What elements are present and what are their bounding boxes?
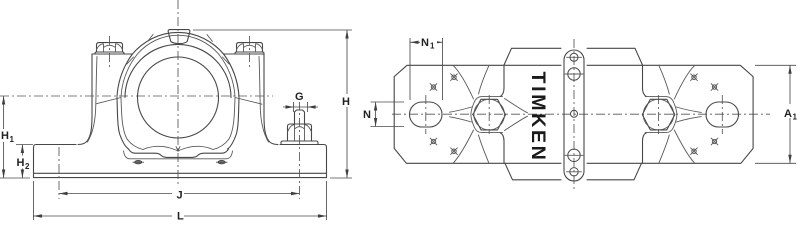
right nut funnel webs	[659, 65, 695, 163]
left nut funnel webs	[453, 65, 489, 163]
drill center marks right side	[691, 74, 718, 155]
joint strip with tabs	[564, 50, 584, 181]
right nut outboard webs	[676, 107, 701, 122]
dimension N	[363, 102, 404, 127]
dimension L	[34, 181, 327, 223]
casting tick marks on cap	[127, 35, 229, 65]
svg-text:1: 1	[10, 135, 15, 144]
J left bolt centerline	[58, 147, 60, 199]
G mounting bolt: washer	[281, 141, 318, 144]
svg-text:H: H	[342, 96, 350, 108]
dimension H2	[15, 145, 33, 179]
svg-text:A: A	[784, 108, 792, 120]
strip hole small top	[567, 53, 582, 61]
split line ledge left	[96, 98, 121, 104]
svg-text:1: 1	[793, 113, 798, 122]
lube hole mark left	[133, 161, 145, 164]
lube hole mark right	[216, 161, 228, 164]
cap band outline top	[504, 48, 643, 65]
left pillar outer wall	[78, 54, 92, 145]
dimension A1	[755, 65, 800, 163]
parallel arc side continuation	[121, 54, 235, 97]
cavity web moustache curves	[143, 146, 213, 151]
svg-text:G: G	[295, 91, 304, 103]
dimension H	[193, 30, 353, 178]
svg-text:TIMKEN: TIMKEN	[527, 72, 549, 163]
svg-text:N: N	[421, 37, 429, 49]
cap outer inner parallel arc	[137, 35, 218, 54]
left nut outboard webs	[450, 107, 472, 122]
svg-text:H: H	[17, 157, 25, 169]
right cap bolt	[235, 36, 264, 68]
dimension G	[283, 89, 318, 112]
cavity lower edge line	[124, 151, 233, 159]
dimension N1	[410, 36, 443, 101]
strip center hole	[571, 110, 578, 117]
right hex nut	[642, 95, 675, 134]
right pillar inner wall	[259, 57, 269, 143]
drill center marks left side	[430, 74, 457, 155]
cavity floor stepped line	[129, 149, 229, 157]
G bolt nut	[288, 124, 312, 141]
cap band outline bottom	[505, 163, 642, 180]
left nut inboard tail webs	[505, 99, 528, 131]
svg-text:H: H	[1, 130, 9, 142]
split line ledge right	[235, 98, 262, 105]
base outline	[34, 145, 327, 178]
right pillar outer wall	[264, 54, 278, 145]
horizontal centerline plan	[392, 113, 770, 115]
base bottom relief line	[34, 172, 327, 174]
bore circle	[138, 57, 219, 138]
right bolt pad surface	[225, 53, 265, 55]
svg-text:1: 1	[430, 42, 435, 51]
left cap bolt	[95, 36, 124, 68]
right slot bolt hole	[706, 95, 739, 134]
svg-text:2: 2	[25, 162, 30, 171]
left slot bolt hole	[410, 95, 443, 134]
G bolt stud	[295, 110, 305, 124]
vertical centerline plan	[573, 39, 575, 192]
strip hole large bottom	[565, 149, 583, 161]
strip hole large top	[565, 68, 583, 80]
cap outer arc	[132, 32, 223, 54]
right nut pocket	[645, 97, 677, 133]
strip hole small bottom	[567, 168, 582, 176]
cap inner arc	[125, 44, 231, 97]
svg-text:J: J	[177, 190, 183, 202]
left pillar lines below split	[117, 98, 129, 150]
G bolt centerline	[299, 101, 301, 199]
cap band side edges	[500, 65, 647, 163]
right pillar lines below split	[228, 98, 240, 150]
left pillar inner wall	[88, 57, 98, 143]
top boss	[168, 30, 190, 44]
svg-text:N: N	[363, 109, 371, 121]
cap outer arc side continuation to split	[117, 54, 239, 97]
svg-text:L: L	[177, 211, 184, 222]
dimension H1	[0, 96, 30, 178]
left bolt pad surface	[92, 53, 132, 55]
left nut pocket	[471, 97, 503, 133]
left hex nut	[473, 95, 506, 134]
base plate outline	[394, 65, 753, 163]
horizontal centerline front view	[0, 95, 273, 97]
vertical centerline front view	[177, 0, 179, 190]
dimension J	[59, 187, 300, 202]
